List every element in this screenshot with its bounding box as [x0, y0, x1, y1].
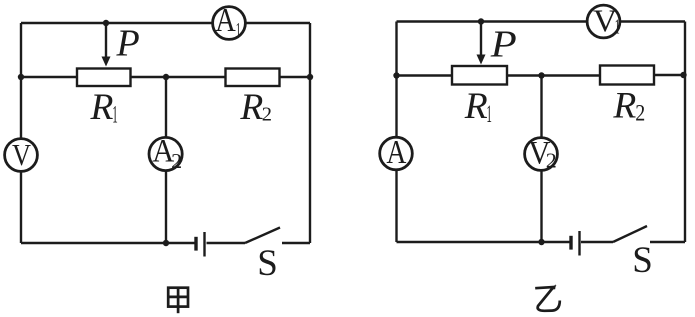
svg-text:V: V [593, 4, 617, 39]
junction node: right circuit top wire / wiper [478, 18, 484, 24]
wire: right circuit left vertical wire above ammeter A [395, 22, 397, 138]
wire: right circuit bottom wire left of battery [397, 241, 571, 243]
svg-text:S: S [257, 243, 278, 284]
wire: left circuit bottom wire right of switch [282, 242, 310, 244]
wire: right circuit bottom wire between battery and switch [581, 241, 613, 243]
junction node: right circuit bottom wire [538, 239, 544, 245]
label R1 (left circuit) [90, 87, 118, 128]
junction node: left circuit middle rail center [163, 74, 169, 80]
svg-text:V: V [12, 138, 31, 172]
svg-text:2: 2 [262, 103, 272, 125]
switch S blade (left circuit) [245, 228, 280, 244]
svg-text:1: 1 [486, 101, 492, 128]
ammeter A2 circle [149, 137, 182, 170]
wiper arrow head over R1 (left circuit) [102, 57, 111, 67]
junction node: right circuit middle rail center [538, 72, 544, 78]
resistor R1 (right circuit rheostat body) [452, 66, 507, 85]
wire: right circuit middle rail, right of R2 [654, 74, 685, 76]
junction node: left circuit left rail [18, 74, 24, 80]
svg-text:A: A [215, 2, 236, 39]
wire: left circuit bottom wire left of battery [21, 242, 195, 244]
svg-text:S: S [632, 240, 653, 281]
label A1 (ammeter A1) [215, 2, 241, 42]
label R1 (right circuit) [464, 86, 492, 128]
battery left circuit: short thick plate (negative) [194, 237, 197, 251]
svg-text:2: 2 [635, 101, 645, 126]
wire: left circuit left vertical wire above voltmeter V [20, 23, 22, 139]
voltmeter V circle [5, 139, 38, 172]
resistor R1 (left circuit rheostat body) [77, 69, 131, 87]
svg-text:1: 1 [112, 99, 118, 128]
ammeter A circle [380, 137, 413, 170]
junction node: right circuit right rail [680, 72, 686, 78]
svg-text:R: R [464, 86, 488, 127]
label 甲 (left figure caption, drawn) [168, 288, 188, 314]
voltmeter V1 circle [587, 5, 620, 38]
wire: left circuit left vertical wire below voltmeter V [20, 172, 22, 244]
wire: left circuit middle rail, between R1 and R2 [131, 76, 226, 78]
resistor R2 (right circuit) [600, 66, 654, 85]
wire: right circuit center branch above voltmeter V2 [540, 76, 542, 138]
wire: left circuit right vertical wire [309, 23, 311, 243]
junction node: left circuit right rail [307, 74, 313, 80]
label V2 (voltmeter V2) [528, 136, 556, 173]
svg-text:P: P [116, 23, 140, 65]
svg-text:R: R [239, 87, 263, 128]
wire: right circuit middle rail, between R1 and R2 [507, 74, 600, 76]
wire: right circuit center branch below voltmeter V2 [540, 171, 542, 243]
wire: right circuit left vertical wire below ammeter A [395, 170, 397, 243]
wire: left circuit top wire right of ammeter A1 [246, 22, 311, 24]
wire: left circuit center branch below ammeter A2 [165, 171, 167, 243]
label V1 (voltmeter V1) [593, 4, 620, 39]
wiper arrow shaft over R1 (left circuit) [105, 23, 107, 59]
svg-text:1: 1 [615, 15, 620, 39]
label R2 (left circuit) [239, 87, 272, 128]
resistor R2 (left circuit) [226, 69, 280, 87]
wiper arrow head over R1 (right circuit) [477, 55, 486, 65]
wire: left circuit top wire left of ammeter A1 [21, 22, 213, 24]
wire: left circuit center branch above ammeter A2 [165, 77, 167, 137]
wire: right circuit right vertical wire [684, 22, 686, 243]
junction node: left circuit bottom wire [163, 240, 169, 246]
wire: right circuit top wire left of voltmeter V1 [397, 20, 588, 22]
wire: right circuit bottom wire right of switch [650, 241, 685, 243]
wiper arrow shaft over R1 (right circuit) [480, 22, 482, 58]
voltmeter V2 circle [525, 138, 558, 171]
ammeter A1 circle [213, 7, 246, 40]
svg-text:R: R [612, 86, 636, 127]
svg-text:R: R [90, 87, 114, 128]
wire: right circuit middle rail, left of R1 [397, 74, 453, 76]
svg-text:P: P [490, 23, 517, 65]
battery right circuit: long thin plate (positive) [578, 231, 580, 256]
label A2 (ammeter A2) [152, 133, 182, 173]
svg-text:1: 1 [236, 18, 241, 42]
junction node: right circuit left rail [393, 72, 399, 78]
svg-text:2: 2 [546, 148, 557, 172]
svg-text:A: A [386, 134, 406, 171]
battery left circuit: long thin plate (positive) [203, 232, 205, 257]
label R2 (right circuit) [612, 86, 645, 127]
wire: left circuit middle rail, right of R2 [280, 76, 311, 78]
wire: right circuit top wire right of voltmeter V1 [620, 20, 685, 22]
junction node: left circuit top wire / wiper [103, 20, 109, 26]
battery right circuit: short thick plate (negative) [569, 236, 572, 250]
wire: left circuit bottom wire between battery and switch [207, 242, 246, 244]
svg-text:2: 2 [171, 149, 182, 173]
label 乙 (right figure caption, drawn) [535, 284, 560, 310]
switch S blade (right circuit) [613, 226, 647, 242]
wire: left circuit middle rail, left of R1 [21, 76, 77, 78]
